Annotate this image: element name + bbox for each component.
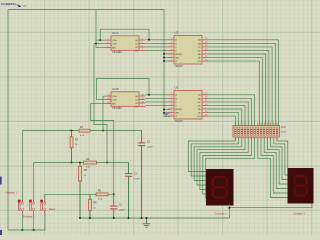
junction button2 bottom on rail bbox=[33, 229, 35, 231]
svg-text:100nF: 100nF bbox=[134, 179, 140, 181]
svg-text:Contador 2: Contador 2 bbox=[294, 212, 306, 215]
push button Reset bbox=[40, 200, 46, 214]
svg-text:74LS47: 74LS47 bbox=[175, 120, 184, 123]
wire U3 RBI stub bbox=[164, 112, 170, 114]
wire U1:B CKA from node1 bbox=[103, 96, 105, 130]
svg-text:CKA: CKA bbox=[112, 39, 117, 42]
wire button1 top riser bbox=[21, 131, 23, 203]
wire pack pin 7 to display1 segment g bbox=[206, 137, 255, 199]
junction R2 top on node1 bbox=[71, 130, 73, 132]
resistor R6 (1k) bbox=[89, 194, 98, 218]
wire pack pin 10 to display2 segment e bbox=[264, 137, 288, 189]
decoder U2 (74LS47) bbox=[174, 36, 202, 65]
counter U1:B (74LS390) bbox=[111, 92, 139, 107]
wire display1 common to rail bbox=[228, 207, 230, 219]
svg-text:Pulsador 1: Pulsador 1 bbox=[6, 191, 18, 194]
wire reset button bottom drop bbox=[44, 213, 46, 231]
svg-text:QG: QG bbox=[197, 116, 201, 118]
junction C1 on ground rail bbox=[113, 217, 115, 219]
wire reset line right bbox=[108, 193, 114, 195]
wire U2 QA to pack bbox=[208, 40, 279, 126]
left edge screen artifact 1 bbox=[0, 177, 2, 185]
svg-text:QD: QD bbox=[198, 105, 202, 107]
junction CKA-B on node1 bbox=[102, 130, 104, 132]
wire U2 QD to pack bbox=[208, 50, 269, 125]
svg-text:RBI: RBI bbox=[175, 112, 179, 114]
wire U1:B Q1 to U3 B bbox=[145, 97, 168, 99]
wire U1:A Q1 to U2 B bbox=[145, 42, 168, 44]
svg-text:100nF: 100nF bbox=[147, 146, 153, 148]
wire U2 BI/RBO stub bbox=[164, 53, 170, 55]
wire pack pin 2 to display1 segment b bbox=[191, 137, 238, 176]
junction MR-B on reset line bbox=[113, 193, 115, 195]
wire U1:A CKB to node2 bbox=[94, 44, 107, 163]
left edge screen artifact 2 bbox=[0, 230, 2, 235]
junction R4 top on node2 bbox=[79, 162, 81, 164]
junction R6 on ground rail bbox=[89, 217, 91, 219]
wire U1:A Q0 feedback to CKA bbox=[100, 29, 149, 40]
wire U2 QE to pack bbox=[208, 54, 266, 126]
wire U1:B Q0 to U3 A bbox=[145, 94, 168, 96]
wire U1:A Q0 to U2 A bbox=[145, 39, 168, 41]
svg-text:QD: QD bbox=[198, 50, 202, 52]
wire display commons link bbox=[229, 204, 312, 208]
wire button1 bottom drop bbox=[21, 213, 23, 230]
wire U3 QB to pack bbox=[208, 98, 251, 125]
svg-text:U2: U2 bbox=[175, 31, 179, 35]
junction C2 on ground rail bbox=[128, 217, 130, 219]
resistor R2 (1k) bbox=[70, 131, 79, 163]
junction button1 bottom on rail bbox=[21, 229, 23, 231]
svg-text:BI/RBO: BI/RBO bbox=[175, 54, 183, 56]
wire node2 right bbox=[97, 162, 129, 164]
wire U1:B Q2 to U3 C bbox=[145, 101, 168, 103]
decoder U3 (74LS47) bbox=[174, 91, 202, 120]
svg-text:QC: QC bbox=[198, 102, 202, 104]
resistor pack RX8 bbox=[233, 123, 287, 140]
wire pack pin 6 to display1 segment f bbox=[203, 137, 252, 194]
junction U2 BI/RBO bbox=[163, 53, 165, 55]
wire pack pin 11 to display2 segment d bbox=[267, 137, 288, 184]
svg-text:BI/RBO: BI/RBO bbox=[175, 109, 183, 111]
junction CKB-A on node2 bbox=[106, 162, 108, 164]
wire node1 left bbox=[22, 130, 79, 132]
wire U2 QG to pack bbox=[208, 61, 259, 125]
wire pack pin 3 to display1 segment c bbox=[194, 137, 242, 181]
svg-text:74LS390: 74LS390 bbox=[112, 51, 122, 54]
wire reset button top riser bbox=[44, 194, 46, 203]
resistor R1 (4.7k) bbox=[79, 127, 90, 137]
power terminal arrow bbox=[17, 5, 21, 8]
svg-text:RBI: RBI bbox=[175, 57, 179, 59]
wire bottom-left button common rail bbox=[8, 229, 45, 231]
wire U2 LT stub bbox=[164, 60, 170, 62]
junction CKB-A crossing bbox=[95, 43, 97, 45]
wire pack pin 14 to display2 segment a bbox=[277, 137, 288, 171]
wire node2 left bbox=[34, 162, 84, 164]
junction R4 on ground rail bbox=[79, 217, 81, 219]
junction CKA-A feedback bbox=[99, 39, 101, 41]
wire reset line left bbox=[45, 193, 96, 195]
wire U3 QD to pack bbox=[208, 105, 245, 125]
wire pack pin 13 to display2 segment b bbox=[274, 137, 288, 175]
wire U3 QA to pack bbox=[208, 95, 255, 126]
junction ground stub bbox=[146, 217, 148, 219]
wire U1:A CKA from node1 bbox=[96, 39, 105, 41]
wire U3 QF to pack bbox=[208, 113, 239, 126]
counter U1:A (74LS390) bbox=[111, 36, 139, 51]
wire button2 top riser bbox=[33, 163, 35, 203]
wire pack pin 1 to display1 segment a bbox=[188, 137, 235, 172]
wire U2 QC to pack bbox=[208, 47, 272, 126]
svg-text:CKA: CKA bbox=[112, 95, 117, 98]
svg-text:MR: MR bbox=[112, 104, 116, 106]
wire decoder tie vertical bbox=[164, 10, 170, 117]
wire pack pin 9 to display2 segment f bbox=[261, 137, 288, 193]
capacitor C1 (100nF) bbox=[110, 194, 125, 218]
svg-text:CKB: CKB bbox=[112, 44, 117, 46]
svg-text:74LS47: 74LS47 bbox=[175, 65, 184, 68]
push button Pulsador 2 bbox=[29, 200, 35, 214]
junction U2 LT bbox=[163, 60, 165, 62]
junction U3 BI/RBO bbox=[163, 109, 165, 111]
wire U3 QE to pack bbox=[208, 109, 242, 126]
wire U1:A MR from top rail bbox=[96, 10, 105, 48]
wire U3 BI/RBO stub bbox=[164, 109, 170, 111]
wire node1 right bbox=[90, 130, 142, 132]
wire pack pin 8 to display2 segment g bbox=[258, 137, 288, 198]
junction display1 common bbox=[228, 207, 230, 209]
svg-text:QC: QC bbox=[198, 47, 202, 49]
wire top rail bbox=[8, 9, 164, 11]
wire left rail bbox=[7, 10, 9, 231]
wire U1:B MR to reset line bbox=[91, 104, 114, 195]
7-segment display Contador 1 bbox=[206, 169, 234, 206]
resistor R4 (1k) bbox=[79, 163, 88, 219]
junction Q0-A feedback bbox=[148, 39, 150, 41]
wire U3 QG to pack bbox=[208, 116, 235, 125]
svg-text:CKB: CKB bbox=[112, 100, 117, 102]
svg-text:Contador 1: Contador 1 bbox=[215, 213, 227, 216]
wire pack pin 12 to display2 segment c bbox=[271, 137, 288, 180]
wire pack pin 4 to display1 segment d bbox=[197, 137, 245, 185]
wire U2 RBI stub bbox=[164, 56, 170, 58]
wire U1:B Q0 feedback to CKB bbox=[97, 79, 149, 100]
7-segment display Contador 2 bbox=[288, 168, 314, 204]
wire pack pin 5 to display1 segment e bbox=[200, 137, 248, 190]
svg-text:QG: QG bbox=[197, 61, 201, 63]
svg-text:U1:A: U1:A bbox=[112, 31, 118, 35]
svg-text:U1:B(CKA): U1:B(CKA) bbox=[1, 2, 16, 6]
resistor R3 (4.7k) bbox=[84, 159, 97, 169]
capacitor C2 (100nF) bbox=[125, 163, 141, 219]
svg-text:Reset: Reset bbox=[49, 208, 56, 211]
voltage probe marker bbox=[164, 112, 168, 116]
wire button2 bottom drop bbox=[33, 213, 35, 230]
svg-text:U1:B: U1:B bbox=[112, 87, 118, 91]
wire U3 QC to pack bbox=[208, 102, 248, 126]
junction Q0-B feedback bbox=[148, 94, 150, 96]
display1 common pin stub bbox=[228, 204, 230, 207]
junction U3 RBI bbox=[163, 112, 165, 114]
junction R2 bottom on node2 bbox=[71, 162, 73, 164]
capacitor C3 (100nF) bbox=[138, 131, 154, 219]
svg-text:RX8: RX8 bbox=[281, 126, 286, 129]
svg-text:MR: MR bbox=[112, 48, 116, 50]
svg-text:300R: 300R bbox=[281, 131, 287, 133]
wire U2 QF to pack bbox=[208, 58, 263, 126]
ground symbol bbox=[143, 218, 151, 227]
wire U2 QB to pack bbox=[208, 43, 275, 125]
svg-text:100nF: 100nF bbox=[119, 210, 125, 212]
wire ground rail bbox=[80, 217, 229, 219]
svg-text:U3: U3 bbox=[175, 86, 179, 90]
junction C3 on ground rail bbox=[141, 217, 143, 219]
display2 common pin stub bbox=[311, 201, 313, 205]
junction U2 RBI bbox=[163, 56, 165, 58]
wire U1:A Q2 to U2 C bbox=[145, 46, 168, 48]
push button Pulsador 1 bbox=[18, 200, 24, 214]
svg-text:74LS390: 74LS390 bbox=[112, 107, 122, 110]
resistor R5 (4.7k) bbox=[96, 191, 108, 201]
wire U1:B Q3 to U3 D bbox=[145, 104, 168, 106]
wire U1:A Q3 to U2 D bbox=[145, 49, 168, 51]
